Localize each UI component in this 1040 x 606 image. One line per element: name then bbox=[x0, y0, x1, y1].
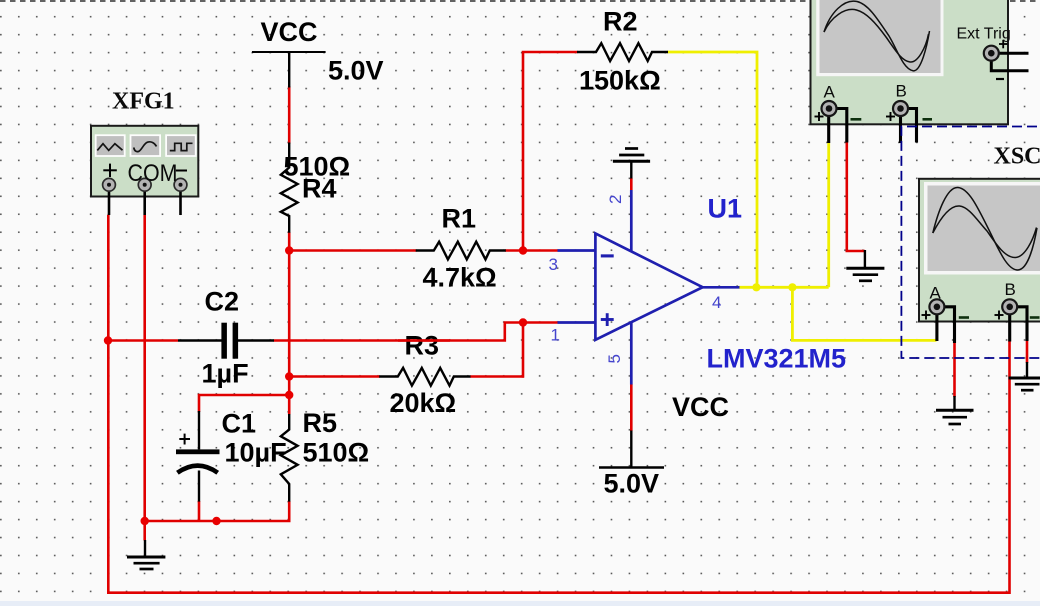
svg-text:510Ω: 510Ω bbox=[303, 438, 370, 468]
svg-text:XFG1: XFG1 bbox=[112, 89, 175, 115]
label 5.0V top bbox=[328, 56, 384, 86]
wire inverting node up to R2 left (red) bbox=[523, 52, 578, 251]
op-amp U1 bbox=[558, 190, 740, 385]
resistor R3 bbox=[379, 368, 470, 386]
junction node inverting input bbox=[519, 246, 527, 254]
junction node output/XSC2 branch (yellow) bbox=[788, 283, 796, 291]
wire bottom rail C1/R5 (red) bbox=[145, 501, 290, 521]
selection box (dashed, around XSC2) bbox=[901, 127, 1040, 359]
wire XFG1 + terminal to bottom rail to XSC2 B+ (red loop) bbox=[108, 215, 1009, 593]
junction node non-inverting input bbox=[519, 318, 527, 326]
label R1 bbox=[442, 204, 477, 234]
svg-text:U1: U1 bbox=[708, 194, 743, 224]
svg-text:LMV321M5: LMV321M5 bbox=[707, 344, 847, 374]
svg-text:4.7kΩ: 4.7kΩ bbox=[423, 263, 497, 293]
label U1 bbox=[708, 194, 743, 224]
power VCC bottom (5.0V bar) bbox=[599, 431, 664, 468]
junction node C2 left bbox=[104, 336, 112, 344]
wire C2 net over R3 label (red) bbox=[398, 339, 450, 342]
svg-text:R4: R4 bbox=[302, 174, 337, 204]
wire node A to R1 left (red) bbox=[289, 249, 416, 252]
wire XSC2 B- to ground (red) bbox=[1026, 340, 1029, 363]
junction node R4/R1 bbox=[285, 246, 293, 254]
label C2 bbox=[205, 287, 240, 317]
wire non-inverting node to op-amp pin 1 (red) bbox=[523, 321, 558, 324]
page border (top dashed) bbox=[0, 0, 1040, 2]
svg-text:1µF: 1µF bbox=[202, 359, 249, 389]
svg-text:4: 4 bbox=[712, 293, 721, 312]
wire R3 left stub (red) bbox=[289, 375, 380, 378]
wire output branch to XSC2 A+ (yellow) bbox=[792, 287, 936, 340]
label 4.7kohm (R1) bbox=[423, 263, 497, 293]
label C1 bbox=[222, 409, 257, 439]
svg-text:A: A bbox=[824, 83, 836, 102]
wire R5-top node to C1 top (red) bbox=[199, 395, 289, 412]
svg-text:C2: C2 bbox=[205, 287, 240, 317]
svg-text:R2: R2 bbox=[603, 7, 638, 37]
ground (op-amp pin 2, inverted) bbox=[613, 149, 650, 179]
wire R2 right to output node (yellow) bbox=[668, 52, 758, 287]
label 20kohm (R3) bbox=[390, 388, 457, 418]
ground (XSC2 A-) bbox=[936, 396, 974, 424]
wire XSC2 A- to ground (red) bbox=[953, 342, 956, 397]
junction node R3 left bbox=[285, 372, 293, 380]
resistor R2 bbox=[577, 43, 668, 61]
svg-text:5: 5 bbox=[605, 354, 624, 363]
wire VCC stem (red) bbox=[288, 86, 291, 144]
label R4 bbox=[302, 174, 337, 204]
svg-text:2: 2 bbox=[606, 195, 625, 204]
svg-text:3: 3 bbox=[549, 255, 558, 274]
wire non-inverting node down to R3 net (red) bbox=[522, 323, 525, 378]
pin 5 label (rotated) bbox=[605, 354, 624, 363]
wire op-amp pin5 to VCC (red) bbox=[630, 384, 633, 431]
resistor R4 bbox=[281, 143, 298, 233]
pin 3 label bbox=[549, 255, 558, 274]
svg-text:R1: R1 bbox=[442, 204, 477, 234]
junction node ground rail bbox=[141, 517, 149, 525]
svg-text:B: B bbox=[1005, 280, 1016, 299]
wire output to XSC1 A+ (yellow) bbox=[827, 143, 830, 287]
capacitor C2 bbox=[178, 323, 274, 359]
label 10uF (C1) bbox=[225, 438, 287, 468]
label XFG1 bbox=[112, 89, 175, 115]
wire XSC1 A- to ground (red) bbox=[847, 143, 865, 252]
svg-text:XSC2: XSC2 bbox=[994, 144, 1040, 170]
svg-text:R5: R5 bbox=[303, 408, 338, 438]
label LMV321M5 bbox=[707, 344, 847, 374]
label R2 bbox=[603, 7, 638, 37]
label 5.0V bottom bbox=[604, 469, 660, 499]
svg-text:1: 1 bbox=[551, 326, 560, 345]
pin 1 label bbox=[551, 326, 560, 345]
svg-text:5.0V: 5.0V bbox=[604, 469, 660, 499]
svg-text:20kΩ: 20kΩ bbox=[390, 388, 457, 418]
function generator XFG1 bbox=[91, 126, 198, 215]
wire C2 right to non-inverting node (red) bbox=[274, 323, 524, 341]
pin 4 label bbox=[712, 293, 721, 312]
wire op-amp output net (yellow) bbox=[739, 286, 829, 289]
svg-text:10µF: 10µF bbox=[225, 438, 287, 468]
wire XFG1 COM terminal down to ground rail (red) bbox=[143, 215, 146, 541]
label VCC bottom bbox=[672, 392, 729, 422]
status strip bottom bbox=[0, 601, 1040, 606]
pin 2 label (rotated) bbox=[606, 195, 625, 204]
svg-text:COM: COM bbox=[128, 160, 178, 187]
svg-text:VCC: VCC bbox=[672, 392, 729, 422]
oscilloscope XSC1 bbox=[811, 0, 1029, 143]
wire C2 left to XFG node (red) bbox=[108, 339, 178, 342]
label 510ohm (R5) bbox=[303, 438, 370, 468]
capacitor C1 (polarized) bbox=[176, 411, 220, 502]
junction node output/R2 (yellow) bbox=[752, 283, 760, 291]
svg-text:VCC: VCC bbox=[261, 17, 318, 47]
label 510ohm (R4) bbox=[284, 152, 351, 182]
power VCC top bbox=[252, 52, 326, 88]
svg-text:5.0V: 5.0V bbox=[328, 56, 384, 86]
label VCC top bbox=[261, 17, 318, 47]
label XSC2 bbox=[994, 144, 1040, 170]
label R5 bbox=[303, 408, 338, 438]
wire op-amp pin2 ground segment (red) bbox=[630, 178, 633, 190]
resistor R5 bbox=[281, 414, 298, 502]
label 1uF (C2) bbox=[202, 359, 249, 389]
ground (XSC2 B-) bbox=[1009, 362, 1040, 390]
wire C1 bottom to rail (red) bbox=[198, 501, 201, 521]
junction node R5 top bbox=[285, 391, 293, 399]
label R3 bbox=[405, 331, 440, 361]
junction node C1 bottom bbox=[212, 517, 220, 525]
label 150kohm (R2) bbox=[579, 66, 661, 96]
svg-text:B: B bbox=[896, 82, 907, 101]
ground (XFG1 COM) bbox=[127, 540, 165, 569]
svg-text:C1: C1 bbox=[222, 409, 257, 439]
wire R3 right to node (red) bbox=[470, 375, 524, 378]
ground (XSC1 A-) bbox=[846, 250, 884, 281]
oscilloscope XSC2 bbox=[919, 179, 1040, 343]
svg-text:R3: R3 bbox=[405, 331, 440, 361]
wire R1 right to inverting node (red) bbox=[505, 249, 558, 252]
svg-text:150kΩ: 150kΩ bbox=[579, 66, 661, 96]
wire R4 bottom through R3 node to R5 top (red) bbox=[288, 232, 291, 415]
resistor R1 bbox=[416, 242, 506, 260]
